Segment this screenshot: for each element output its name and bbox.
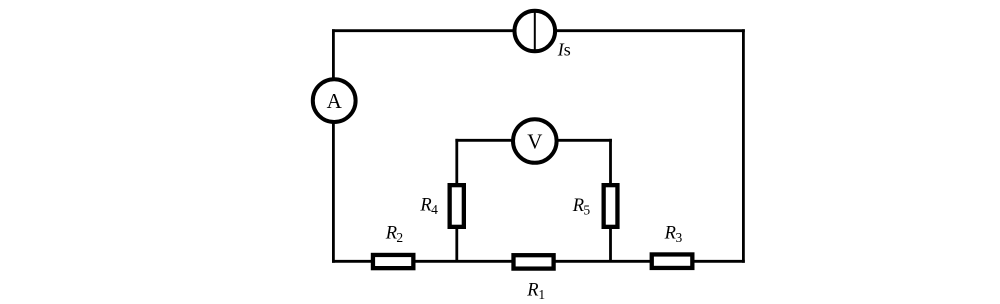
ammeter A circle <box>313 79 356 122</box>
svg-text:R: R <box>526 281 538 301</box>
resistor R4 <box>450 185 464 227</box>
wire R4 branch vertical <box>455 139 458 261</box>
wire right <box>742 29 745 262</box>
wire top <box>332 29 745 32</box>
svg-text:2: 2 <box>396 230 403 245</box>
svg-text:V: V <box>527 129 542 153</box>
voltmeter V circle <box>513 119 557 163</box>
svg-text:Is: Is <box>557 40 571 60</box>
svg-text:R: R <box>419 195 431 215</box>
svg-text:A: A <box>327 89 343 113</box>
resistor R3 <box>652 254 693 268</box>
wire R5 branch vertical <box>609 139 612 261</box>
svg-text:R: R <box>664 224 676 244</box>
resistor R5 <box>604 185 618 227</box>
svg-text:3: 3 <box>676 230 683 245</box>
wire voltmeter branch horizontal <box>455 139 612 142</box>
current source Is circle <box>515 11 556 52</box>
svg-text:R: R <box>572 196 584 216</box>
svg-text:1: 1 <box>538 287 545 302</box>
resistor R2 <box>373 255 413 268</box>
resistor R1 <box>514 255 554 268</box>
svg-text:4: 4 <box>431 202 438 217</box>
svg-text:R: R <box>385 224 397 244</box>
svg-text:5: 5 <box>583 202 590 217</box>
current source Is internal line <box>534 10 536 53</box>
wire bottom <box>332 260 745 263</box>
wire left <box>332 29 335 262</box>
